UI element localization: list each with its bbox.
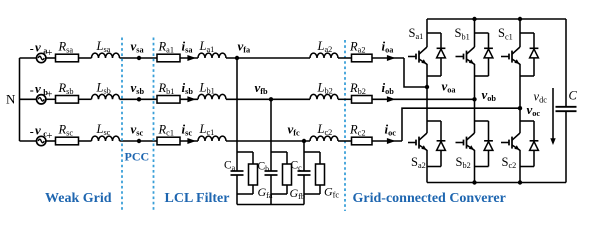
wire leg c lower collector: [519, 121, 521, 133]
wire leg c to bottom rail: [519, 167, 521, 183]
wire source to R_sa: [46, 57, 56, 59]
resistor R_b2: [352, 96, 373, 104]
IGBT S_b1: [456, 47, 475, 64]
wire leg b lower collector: [474, 121, 476, 133]
wire to diode bottom S_c1: [520, 75, 534, 77]
wire to diode top S_c1: [520, 32, 534, 34]
capacitor C_c: [298, 152, 311, 194]
wire R_sc to L_sc: [79, 140, 92, 142]
wire N bus to source v_a: [20, 57, 38, 59]
wire leg b upper emitter: [474, 64, 476, 76]
svg-text:C: C: [569, 89, 578, 103]
anti-parallel diode of S_b1: [484, 33, 493, 76]
anti-parallel diode of S_a1: [437, 33, 446, 76]
resistor R_c2: [352, 137, 373, 145]
resistor R_b1: [157, 96, 180, 104]
node v_fb: [269, 97, 273, 101]
wire to diode bottom S_a1: [427, 75, 441, 77]
svg-text:-: -: [30, 42, 34, 56]
label - v_b +: [30, 81, 53, 101]
wire leg a to bottom rail: [426, 167, 428, 183]
damping resistor G_fc: [316, 152, 325, 194]
wire v_fc down to shunt branch: [303, 141, 305, 152]
dc-link capacitor C: [556, 19, 577, 183]
node v_oa: [425, 85, 429, 89]
inductor L_b2: [310, 94, 338, 99]
inductor L_a1: [198, 53, 226, 58]
svg-text:PCC: PCC: [125, 150, 150, 164]
node v_sb: [137, 97, 141, 101]
wire L_b2 to R_b2: [338, 98, 352, 100]
wire leg a upper collector: [426, 19, 428, 47]
leg b midpoint wire: [474, 76, 476, 121]
wire L_sc to R_c1: [120, 140, 158, 142]
IGBT S_b2: [456, 133, 475, 150]
inductor L_c1: [198, 136, 226, 141]
resistor R_a1: [157, 54, 180, 62]
bottom DC rail: [427, 182, 566, 184]
wire to diode top S_b1: [475, 32, 489, 34]
damping resistor G_fa: [249, 152, 258, 194]
inductor L_sa: [92, 53, 120, 58]
anti-parallel diode of S_a2: [437, 121, 446, 167]
capacitor C_a: [231, 152, 244, 194]
inductor L_sb: [92, 94, 120, 99]
neutral bus wire: [19, 58, 21, 141]
svg-text:Grid-connected Converer: Grid-connected Converer: [353, 191, 506, 206]
inductor L_a2: [310, 53, 338, 58]
wire phase c rise to v_oc: [402, 108, 520, 141]
node v_oc: [518, 106, 522, 110]
anti-parallel diode of S_b2: [484, 121, 493, 167]
resistor R_c1: [157, 137, 180, 145]
wire to diode top S_a2: [427, 120, 441, 122]
wire leg a lower collector: [426, 121, 428, 133]
dashed separator line 1 (PCC left): [121, 38, 123, 212]
wire to diode bottom S_a2: [427, 166, 441, 168]
wire to diode bottom S_b2: [475, 166, 489, 168]
wire to diode bottom S_b1: [475, 75, 489, 77]
wire source to R_sb: [46, 98, 56, 100]
wire leg b lower emitter: [474, 150, 476, 167]
IGBT S_c1: [501, 47, 520, 64]
wire to diode bottom S_c2: [520, 166, 534, 168]
shunt branch bottom bar phase c: [304, 193, 320, 195]
wire R_c2 to converter: [372, 140, 402, 142]
wire R_c1 to L_c1: [180, 140, 198, 142]
svg-text:v: v: [35, 81, 41, 96]
svg-text:N: N: [6, 92, 16, 107]
wire L_a1 to L_a2: [226, 57, 310, 59]
wire v_fb down to shunt branch: [270, 99, 272, 152]
shunt branch top bar phase c: [304, 151, 320, 153]
svg-text:LCL Filter: LCL Filter: [165, 191, 230, 206]
wire shunt branch to common bus phase c: [303, 194, 305, 205]
svg-text:v: v: [35, 40, 41, 55]
wire leg b to bottom rail: [474, 167, 476, 183]
dashed separator line 3 (converter): [344, 40, 346, 211]
svg-text:-: -: [30, 83, 34, 97]
resistor R_sa: [56, 54, 79, 62]
wire to diode top S_c2: [520, 120, 534, 122]
wire L_sb to R_b1: [120, 98, 158, 100]
capacitor common bus wire: [237, 204, 304, 206]
leg c midpoint wire: [519, 76, 521, 121]
wire leg c upper collector: [519, 19, 521, 47]
label - v_c +: [30, 123, 53, 143]
wire R_a1 to L_a1: [180, 57, 198, 59]
svg-text:-: -: [30, 125, 34, 139]
shunt branch top bar phase b: [271, 151, 287, 153]
wire leg a lower emitter: [426, 150, 428, 167]
current arrow i_sb: [187, 96, 196, 102]
junction bottom rail leg b: [472, 180, 476, 184]
wire to diode top S_a1: [427, 32, 441, 34]
inductor L_b1: [198, 94, 226, 99]
wire R_b2 to converter: [372, 98, 475, 100]
v_dc measurement arrow: [550, 88, 555, 145]
node v_fc: [302, 139, 306, 143]
wire L_a2 to R_a2: [338, 57, 352, 59]
inductor L_c2: [310, 136, 338, 141]
wire L_c2 to R_c2: [338, 140, 352, 142]
wire N bus to source v_b: [20, 98, 38, 100]
wire leg c lower emitter: [519, 150, 521, 167]
shunt branch top bar phase a: [237, 151, 253, 153]
svg-text:Weak Grid: Weak Grid: [45, 191, 112, 206]
wire L_c1 to L_c2: [226, 140, 310, 142]
wire leg a upper emitter: [426, 64, 428, 76]
dashed separator line 2 (PCC right): [153, 38, 155, 212]
wire L_sa to R_a1: [120, 57, 158, 59]
voltage source v_c: [37, 136, 46, 145]
resistor R_sc: [56, 137, 79, 145]
wire to diode top S_b2: [475, 120, 489, 122]
wire shunt branch to common bus phase b: [270, 194, 272, 205]
junction top rail leg c: [518, 17, 522, 21]
wire v_fa down to shunt branch: [236, 58, 238, 152]
resistor R_sb: [56, 96, 79, 104]
junction top rail leg b: [472, 17, 476, 21]
junction bottom rail leg c: [518, 180, 522, 184]
wire leg b upper collector: [474, 19, 476, 47]
top DC rail: [427, 18, 566, 20]
capacitor C_b: [265, 152, 278, 194]
current arrow i_sc: [187, 138, 196, 144]
current arrow i_oa: [387, 55, 396, 61]
IGBT S_a2: [408, 133, 427, 150]
node v_fa: [235, 56, 239, 60]
inductor L_sc: [92, 136, 120, 141]
wire source to R_sc: [46, 140, 56, 142]
IGBT S_c2: [501, 133, 520, 150]
label - v_a +: [30, 40, 53, 60]
wire N bus to source v_c: [20, 140, 38, 142]
damping resistor G_fb: [283, 152, 292, 194]
voltage source v_a: [37, 53, 46, 62]
svg-text:v: v: [35, 123, 41, 138]
current arrow i_ob: [387, 96, 396, 102]
wire R_sa to L_sa: [79, 57, 92, 59]
wire L_b1 to L_b2: [226, 98, 310, 100]
wire leg c upper emitter: [519, 64, 521, 76]
wire R_a2 to converter: [372, 57, 404, 59]
shunt branch bottom bar phase b: [271, 193, 287, 195]
current arrow i_oc: [387, 138, 396, 144]
voltage source v_b: [37, 95, 46, 104]
wire phase a drop to v_oa: [404, 58, 427, 87]
shunt branch bottom bar phase a: [237, 193, 253, 195]
anti-parallel diode of S_c1: [530, 33, 539, 76]
leg a midpoint wire: [426, 76, 428, 121]
wire R_sb to L_sb: [79, 98, 92, 100]
IGBT S_a1: [408, 47, 427, 64]
resistor R_a2: [352, 54, 373, 62]
current arrow i_sa: [187, 55, 196, 61]
node v_ob: [472, 97, 476, 101]
node v_sa: [137, 56, 141, 60]
anti-parallel diode of S_c2: [530, 121, 539, 167]
wire shunt branch to common bus phase a: [236, 194, 238, 205]
node v_sc: [137, 139, 141, 143]
wire R_b1 to L_b1: [180, 98, 198, 100]
